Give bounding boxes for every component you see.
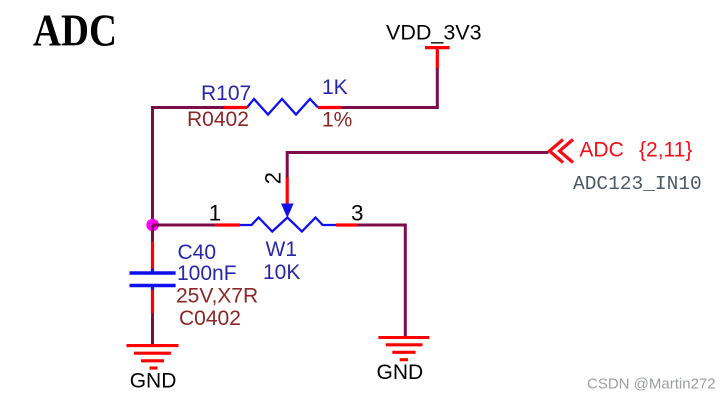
- capacitor C40 bottom stub: [151, 287, 154, 291]
- resistor R107: [247, 99, 318, 115]
- port chevron inner: [560, 140, 574, 163]
- svg-text:25V,X7R: 25V,X7R: [176, 284, 258, 307]
- svg-text:W1: W1: [266, 238, 298, 261]
- wire R107 pin1 to junction, down to node: [153, 108, 225, 226]
- svg-text:ADC123_IN10: ADC123_IN10: [573, 173, 702, 195]
- svg-text:C0402: C0402: [179, 307, 241, 330]
- power symbol VDD_3V3 stem: [436, 48, 439, 69]
- capacitor C40 top stub: [151, 269, 154, 272]
- pin 2 of W1: [286, 177, 289, 204]
- svg-text:10K: 10K: [263, 261, 300, 284]
- ground symbol left: [127, 346, 179, 368]
- svg-text:3: 3: [351, 201, 364, 226]
- wire C40 to left GND: [151, 313, 154, 346]
- wire junction to pot pin 1: [153, 224, 216, 227]
- pin 1 of C40: [151, 242, 154, 269]
- capacitor C40 top plate: [130, 271, 176, 275]
- wire W1 pin2 up and right to port: [287, 153, 548, 178]
- port chevron outer: [550, 140, 564, 163]
- potentiometer W1 wiper arrow: [281, 204, 294, 219]
- svg-text:R0402: R0402: [187, 108, 249, 131]
- pin 1 of R107: [224, 106, 247, 109]
- junction node: [146, 219, 159, 232]
- capacitor C40 bottom plate: [130, 284, 176, 288]
- svg-text:1%: 1%: [322, 109, 352, 132]
- svg-text:R107: R107: [201, 82, 251, 105]
- pin 3 of W1: [336, 223, 357, 226]
- svg-text:2: 2: [260, 172, 285, 184]
- wire junction down to C40: [151, 225, 154, 243]
- ground symbol right: [378, 338, 429, 360]
- svg-text:CSDN @Martin272: CSDN @Martin272: [587, 375, 716, 392]
- svg-text:{2,11}: {2,11}: [639, 139, 692, 162]
- svg-text:ADC: ADC: [579, 139, 623, 162]
- pin 1 of W1: [215, 223, 240, 226]
- wire W1 pin3 to right GND: [357, 225, 405, 338]
- pin 2 of C40: [151, 290, 154, 313]
- svg-text:GND: GND: [130, 369, 177, 392]
- potentiometer W1 body: [240, 218, 336, 232]
- svg-text:100nF: 100nF: [177, 262, 237, 285]
- svg-text:C40: C40: [178, 241, 217, 264]
- svg-text:GND: GND: [377, 361, 424, 384]
- svg-text:ADC: ADC: [33, 6, 117, 56]
- power symbol VDD_3V3 bar: [425, 46, 450, 49]
- svg-text:1K: 1K: [322, 76, 348, 99]
- svg-text:1: 1: [209, 200, 222, 225]
- svg-text:VDD_3V3: VDD_3V3: [386, 20, 482, 44]
- pin 2 of R107: [318, 106, 341, 109]
- wire VDD to R107 pin 2: [341, 68, 437, 108]
